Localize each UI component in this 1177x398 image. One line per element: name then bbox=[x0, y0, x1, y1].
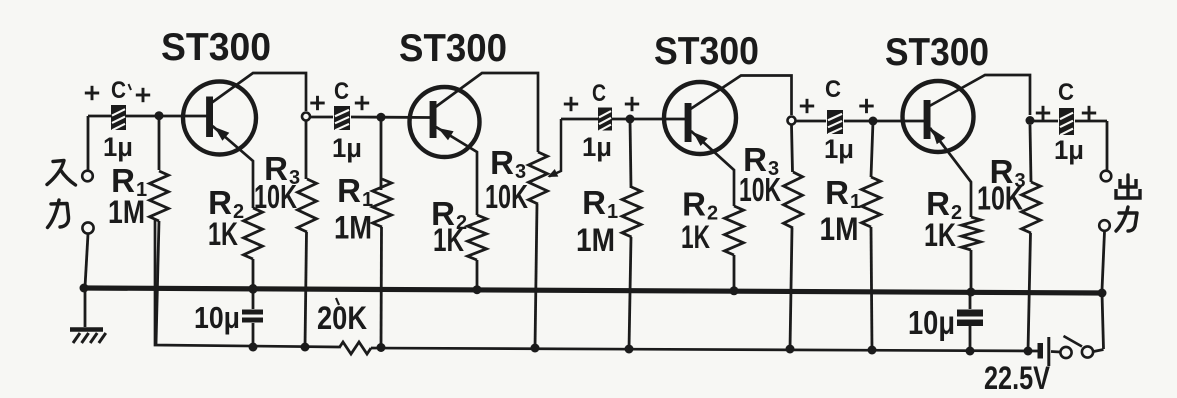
svg-text:ST300: ST300 bbox=[161, 26, 271, 69]
svg-text:ST300: ST300 bbox=[885, 31, 989, 74]
svg-text:1K: 1K bbox=[924, 217, 956, 253]
svg-text:1M: 1M bbox=[108, 194, 145, 230]
svg-text:R: R bbox=[582, 184, 606, 221]
svg-text:10K: 10K bbox=[977, 180, 1023, 217]
svg-text:1M: 1M bbox=[820, 211, 859, 247]
svg-text:1K: 1K bbox=[681, 219, 710, 255]
svg-text:10μ: 10μ bbox=[908, 304, 955, 341]
svg-text:22.5V: 22.5V bbox=[984, 360, 1051, 393]
svg-text:10K: 10K bbox=[485, 178, 528, 215]
svg-text:1M: 1M bbox=[576, 222, 615, 258]
svg-text:10K: 10K bbox=[739, 171, 781, 208]
svg-text:C: C bbox=[592, 80, 606, 107]
svg-text:1: 1 bbox=[362, 189, 373, 211]
svg-text:C: C bbox=[1058, 79, 1074, 106]
svg-text:C: C bbox=[825, 76, 841, 103]
svg-text:R: R bbox=[337, 172, 361, 209]
svg-text:20K: 20K bbox=[317, 300, 367, 336]
svg-text:1μ: 1μ bbox=[1054, 135, 1084, 165]
svg-text:1: 1 bbox=[850, 191, 861, 213]
svg-text:ST300: ST300 bbox=[654, 30, 759, 73]
svg-text:1: 1 bbox=[607, 201, 618, 223]
svg-text:1μ: 1μ bbox=[824, 134, 854, 164]
svg-text:R: R bbox=[682, 186, 706, 223]
svg-text:1μ: 1μ bbox=[332, 133, 362, 163]
svg-text:R: R bbox=[825, 174, 849, 211]
svg-text:10μ: 10μ bbox=[194, 300, 240, 335]
svg-text:1μ: 1μ bbox=[582, 132, 612, 162]
svg-text:ST300: ST300 bbox=[399, 27, 507, 70]
svg-text:C: C bbox=[111, 77, 126, 104]
svg-text:C: C bbox=[334, 78, 349, 105]
svg-text:1μ: 1μ bbox=[103, 132, 133, 162]
svg-text:10K: 10K bbox=[254, 178, 297, 215]
svg-text:R: R bbox=[490, 144, 514, 181]
svg-text:1K: 1K bbox=[208, 216, 238, 252]
svg-text:1K: 1K bbox=[433, 222, 464, 258]
svg-text:1M: 1M bbox=[334, 210, 372, 246]
